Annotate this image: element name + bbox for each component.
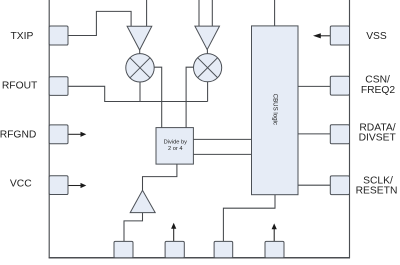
arrow VCC pointing right	[68, 183, 86, 188]
wire amp A3 output to bottom pin 1	[124, 213, 143, 242]
pin box RFOUT	[49, 77, 68, 96]
arrow VSS pointing left	[313, 33, 330, 38]
CBUS logic block	[252, 26, 299, 195]
amp A1 triangle (pointing down)	[127, 26, 152, 50]
chip boundary rectangle (top edge above viewport)	[49, 0, 349, 258]
wire divider to CBUS logic upper	[193, 138, 251, 140]
svg-text:FREQ2: FREQ2	[361, 85, 396, 96]
chip boundary bottom edge	[49, 257, 350, 259]
wire amp A1 second input from top edge	[146, 0, 148, 26]
svg-text:RFOUT: RFOUT	[2, 80, 38, 91]
bottom pin box 3	[214, 241, 233, 257]
wire amp A1 output to mixer M1	[139, 50, 141, 55]
pin box SCLK/RESETN	[330, 176, 349, 195]
bottom pin box 2	[165, 241, 184, 257]
amp A2 triangle (pointing down)	[195, 26, 220, 49]
wire mixer M1 LO input from divider	[154, 67, 162, 127]
pin box VCC	[49, 176, 68, 195]
wire mixer M1 bottom stub to bus	[139, 82, 141, 102]
wire TXIP to amp A1 input	[68, 11, 131, 35]
wire CBUS logic top to top edge	[274, 0, 276, 26]
arrow bottom pin 2 pointing up	[171, 223, 176, 242]
svg-text:CBUS logic: CBUS logic	[271, 94, 278, 125]
svg-text:2 or 4: 2 or 4	[168, 146, 183, 152]
pin box CSN/FREQ2	[330, 76, 349, 95]
wire amp A2 input 1 from top edge	[198, 0, 200, 26]
svg-text:DIVSET: DIVSET	[359, 133, 397, 144]
mixer M2 circle with X	[194, 54, 222, 82]
svg-text:RESETN: RESETN	[356, 185, 398, 196]
pin box TXIP	[49, 26, 68, 45]
pin box RFGND	[49, 125, 68, 144]
wire divider bottom output to amp A3	[143, 164, 177, 190]
svg-text:TXIP: TXIP	[10, 31, 33, 42]
svg-text:VCC: VCC	[10, 179, 32, 190]
divider block Divide by 2 or 4	[156, 128, 193, 165]
bottom pin box 4	[265, 241, 284, 257]
wire RFOUT to mixer bus	[68, 86, 208, 101]
amp A3 triangle (pointing up)	[130, 190, 155, 212]
wire divider to CBUS logic lower	[193, 153, 251, 155]
svg-text:Divide by: Divide by	[164, 140, 188, 146]
wire mixer M2 LO input from divider	[186, 67, 193, 127]
svg-text:CSN/: CSN/	[365, 75, 390, 86]
pin box VSS	[330, 26, 349, 45]
wire CBUS logic bottom to bottom pin 3	[223, 195, 275, 242]
bottom pin box 1	[114, 241, 133, 257]
wire CSN/FREQ2 to CBUS logic	[298, 85, 330, 87]
wire RDATA/DIVSET to CBUS logic	[298, 133, 330, 135]
svg-text:VSS: VSS	[366, 31, 387, 42]
arrow RFGND pointing right	[68, 132, 86, 137]
pin box RDATA/DIVSET	[330, 125, 349, 144]
wire amp A2 output to mixer M2	[206, 50, 208, 55]
wire SCLK/RESETN to CBUS logic	[298, 184, 330, 186]
wire amp A2 input 2 from top edge	[211, 0, 213, 26]
mixer M1 circle with X	[126, 54, 154, 82]
svg-text:RFGND: RFGND	[0, 130, 36, 141]
arrow bottom pin 4 pointing up	[272, 223, 277, 241]
wire mixer M2 bottom stub to bus	[207, 82, 209, 102]
